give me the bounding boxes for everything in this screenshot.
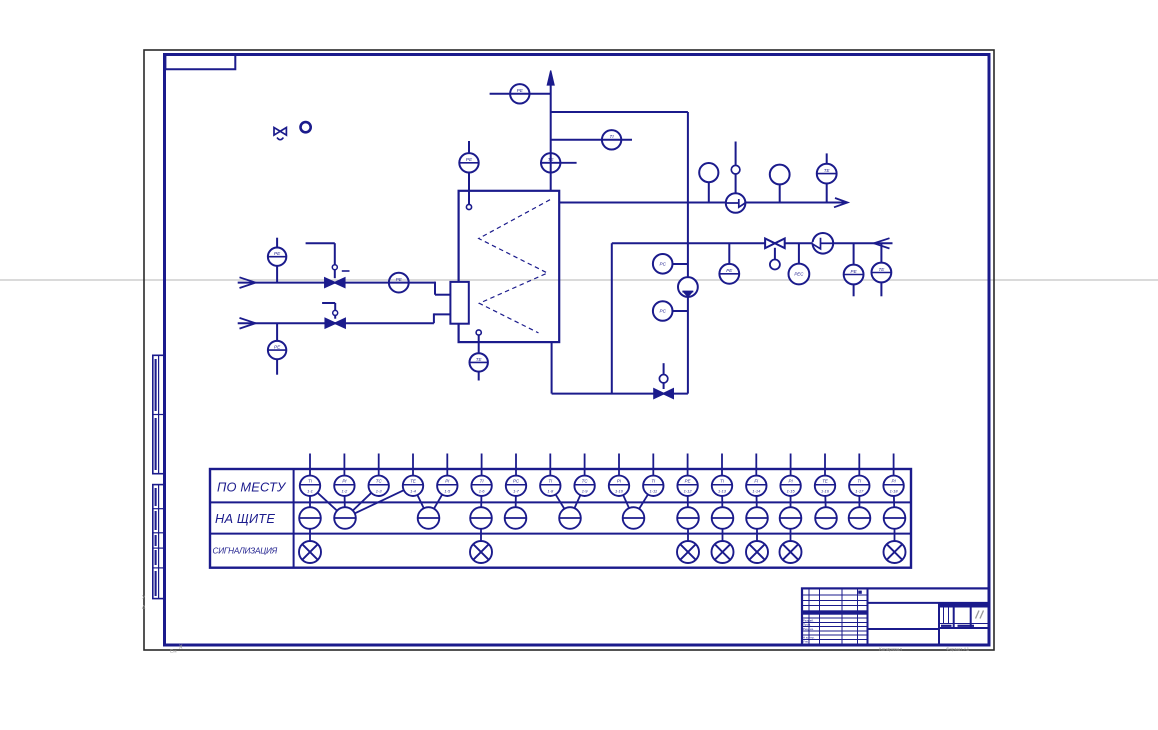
wire: table link row1-row2 #14	[687, 486, 689, 518]
svg-text:1-15: 1-15	[787, 488, 796, 493]
wire: table link row1-row2 #5	[345, 486, 413, 518]
local instrument bubble TI (pos 11)	[652, 454, 654, 476]
svg-text:PE: PE	[274, 345, 281, 350]
local instrument bubble PE (pos 12)	[687, 454, 689, 476]
wire: table link row1-row2 #15	[721, 486, 724, 518]
local instrument bubble TC (pos 3)	[378, 454, 380, 476]
panel instrument bubble 14	[884, 507, 906, 529]
signal lamp 2	[470, 541, 492, 563]
svg-text:1-14: 1-14	[752, 488, 761, 493]
svg-text:НА ЩИТЕ: НА ЩИТЕ	[215, 511, 275, 526]
svg-text:1-11: 1-11	[649, 488, 657, 493]
svg-text:PC: PC	[660, 309, 667, 314]
pipe: feed line 2	[238, 322, 434, 324]
panel instrument bubble 4	[470, 507, 492, 529]
svg-text:PE: PE	[685, 479, 691, 484]
pipe: return line	[612, 242, 893, 244]
svg-text:PEC: PEC	[794, 272, 804, 277]
svg-text:СИГНАЛИЗАЦИЯ: СИГНАЛИЗАЦИЯ	[213, 547, 278, 556]
svg-text:1-16: 1-16	[821, 488, 830, 493]
pipe: product outlet line	[559, 202, 846, 204]
pipe: feed line 1	[238, 282, 435, 284]
wire: table link row1-row2 #9	[515, 486, 518, 518]
wire: table link row1-row2 #2	[310, 486, 345, 518]
panel instrument bubble 13	[849, 507, 871, 529]
panel instrument bubble 1	[299, 507, 321, 529]
signal lamp 4	[712, 541, 734, 563]
instrument TE right	[880, 243, 882, 262]
svg-text:1-9: 1-9	[582, 488, 589, 493]
wire: table link row1-row2 #19	[858, 486, 860, 518]
panel instrument bubble 11	[780, 507, 802, 529]
svg-text:Формат А1: Формат А1	[946, 646, 970, 651]
svg-text:PE: PE	[851, 269, 858, 274]
svg-text:TE: TE	[878, 267, 885, 272]
svg-text:1-5: 1-5	[444, 488, 451, 493]
svg-text:TE: TE	[410, 479, 416, 484]
local instrument bubble PC (pos 7)	[515, 454, 517, 476]
svg-text:1-13: 1-13	[718, 488, 727, 493]
instrument TE below exchanger	[478, 335, 480, 353]
wire: table link row1-row2 #10	[550, 486, 570, 518]
wire: table link row1-row2 #16	[755, 486, 758, 518]
signal table frame	[210, 469, 911, 568]
svg-text:1-12: 1-12	[684, 488, 693, 493]
wire: table link row1-row2 #17	[790, 486, 792, 518]
instrument PE right	[853, 243, 855, 264]
legend pump glyph	[301, 122, 311, 132]
instrument PE on feed 1	[276, 238, 278, 248]
instrument PE on riser tap	[510, 84, 529, 103]
wire: table link row2-row3 #6	[790, 518, 792, 552]
panel instrument bubble 3	[418, 507, 440, 529]
wire: table link row2-row3 #1	[309, 518, 311, 552]
panel instrument bubble 10	[746, 507, 768, 529]
legend valve glyph	[274, 128, 280, 136]
impulse point top	[466, 204, 471, 209]
svg-text:1-3: 1-3	[376, 488, 383, 493]
panel instrument bubble 12	[815, 507, 837, 529]
instrument PE circle on feed 1	[389, 273, 409, 293]
arrow outlet	[834, 198, 848, 207]
control valve symbol on loop vertical	[678, 277, 698, 297]
local instrument bubble FI (pos 14)	[755, 454, 757, 476]
panel instrument bubble 8	[677, 507, 699, 529]
pipe: top branch to right loop	[551, 111, 688, 113]
wire: table link row1-row2 #18	[825, 486, 826, 518]
svg-text:1-4: 1-4	[410, 488, 417, 493]
svg-text:TC: TC	[376, 479, 383, 484]
local instrument bubble PI (pos 2)	[343, 454, 345, 476]
wire: table link row1-row2 #8	[480, 486, 483, 518]
wire: table link row2-row3 #4	[722, 518, 724, 552]
svg-text:ПО МЕСТУ: ПО МЕСТУ	[217, 480, 287, 495]
instrument circle on outlet	[708, 182, 710, 203]
valve VN3 with actuator on loop bottom	[663, 363, 665, 389]
panel instrument bubble 6	[559, 507, 581, 529]
additional graph 26 box top-left	[165, 55, 235, 70]
instrument PC left upper	[673, 263, 688, 265]
instrument PE on return	[728, 243, 730, 264]
wire: table link row1-row2 #7	[429, 486, 448, 518]
impulse point bottom	[476, 330, 481, 335]
flow element FE on outlet	[726, 193, 746, 213]
instrument TI	[602, 130, 621, 149]
instrument PE above exchanger	[468, 141, 470, 153]
wire: table link row1-row2 #6	[413, 486, 429, 518]
local instrument bubble TE (pos 4)	[412, 454, 414, 476]
instrument PEC on return	[798, 243, 800, 263]
svg-text:PE: PE	[466, 157, 473, 162]
svg-text:1-18: 1-18	[890, 488, 899, 493]
svg-text:TE: TE	[476, 357, 483, 362]
FE stem with node	[735, 142, 737, 194]
local instrument bubble PI (pos 5)	[446, 454, 448, 476]
instrument PC left lower	[673, 310, 688, 312]
svg-text:1-1: 1-1	[307, 488, 313, 493]
svg-text:Ем: Ем	[170, 649, 177, 655]
wire: table link row1-row2 #12	[619, 486, 634, 518]
local instrument bubble TC (pos 9)	[584, 454, 586, 476]
signal lamp 6	[780, 541, 802, 563]
svg-text:1-8: 1-8	[547, 488, 554, 493]
wire: table link row2-row3 #5	[756, 518, 758, 552]
ejector on return line	[813, 233, 834, 254]
instrument circle 2 on outlet	[779, 184, 781, 202]
local instrument bubble TI (pos 17)	[858, 454, 860, 476]
exchanger coil (dashed zigzag)	[479, 200, 550, 333]
svg-text:PE: PE	[274, 251, 281, 256]
svg-text:TI: TI	[610, 134, 615, 139]
local instrument bubble TI (pos 1)	[309, 454, 311, 476]
svg-text:х: х	[179, 644, 183, 651]
valve VN1 with actuator	[334, 264, 336, 278]
gray page separator line	[0, 279, 1158, 281]
title block	[802, 588, 989, 645]
svg-text:TE: TE	[824, 168, 831, 173]
pipe: outlet riser with arrow	[550, 73, 552, 191]
svg-text:TE: TE	[548, 157, 555, 162]
panel instrument bubble 7	[623, 507, 645, 529]
panel instrument bubble 5	[505, 507, 527, 529]
wire: table link row1-row2 #1	[309, 486, 311, 518]
instrument TE on outlet	[826, 153, 828, 163]
pipe: TI tap	[551, 139, 632, 141]
signal lamp 7	[884, 541, 906, 563]
pipe: instrument tap at riser top	[490, 93, 551, 95]
wire: table link row1-row2 #13	[634, 486, 654, 518]
svg-text:1-2: 1-2	[342, 488, 349, 493]
wire: table link row2-row3 #3	[687, 518, 689, 552]
valve VN2 with actuator	[334, 303, 336, 319]
heat exchanger E1	[459, 191, 560, 342]
arrow feed 2	[240, 318, 256, 329]
local instrument bubble PI (pos 18)	[893, 454, 895, 476]
wire: exchanger bottom drop	[551, 342, 553, 394]
svg-text:1-7: 1-7	[513, 488, 520, 493]
arrow return (incoming)	[874, 238, 890, 248]
svg-text:PC: PC	[513, 479, 520, 484]
wire: loop right vertical	[687, 112, 689, 394]
wire: table link row1-row2 #3	[343, 486, 346, 518]
svg-text:1-6: 1-6	[479, 488, 486, 493]
local instrument bubble TE (pos 16)	[824, 454, 826, 476]
arrow feed 1	[240, 277, 256, 288]
wire: table link row1-row2 #20	[893, 486, 896, 518]
svg-text:TC: TC	[582, 479, 589, 484]
svg-text:1-17: 1-17	[855, 488, 864, 493]
signal lamp 3	[677, 541, 699, 563]
svg-text:PC: PC	[660, 262, 667, 267]
local instrument bubble PI (pos 15)	[790, 454, 792, 476]
local instrument bubble TI (pos 8)	[549, 454, 551, 476]
svg-text:Реценз.: Реценз.	[803, 627, 814, 631]
wire: loop left vertical	[611, 243, 613, 393]
feed nozzle box	[450, 282, 468, 324]
wire: table link row2-row3 #2	[480, 518, 482, 552]
svg-text:PE: PE	[517, 88, 524, 93]
svg-text:Утв.: Утв.	[803, 640, 809, 644]
wire: table link row1-row2 #11	[570, 486, 585, 518]
svg-text:PE: PE	[396, 277, 403, 282]
left margin stamp strip A	[153, 355, 165, 473]
wire: table link row2-row3 #7	[894, 518, 896, 552]
signal lamp 1	[299, 541, 321, 563]
instrument TE on riser	[540, 162, 577, 164]
local instrument bubble PI (pos 10)	[618, 454, 620, 476]
svg-text:1-10: 1-10	[615, 488, 624, 493]
left margin stamp strip B	[153, 485, 165, 599]
signal lamp 5	[746, 541, 768, 563]
local instrument bubble TI (pos 13)	[721, 454, 723, 476]
wire: loop bottom horizontal	[552, 393, 688, 395]
valve VN4 with positioner below	[774, 248, 776, 260]
svg-text:Копировал: Копировал	[879, 646, 902, 651]
svg-text:TE: TE	[822, 479, 828, 484]
panel instrument bubble 2	[334, 507, 356, 529]
svg-text:PE: PE	[726, 268, 733, 273]
wire: table link row1-row2 #4	[345, 486, 379, 518]
instrument PE below feed 2	[276, 323, 278, 341]
panel instrument bubble 9	[712, 507, 734, 529]
local instrument bubble TI (pos 6)	[481, 454, 483, 476]
